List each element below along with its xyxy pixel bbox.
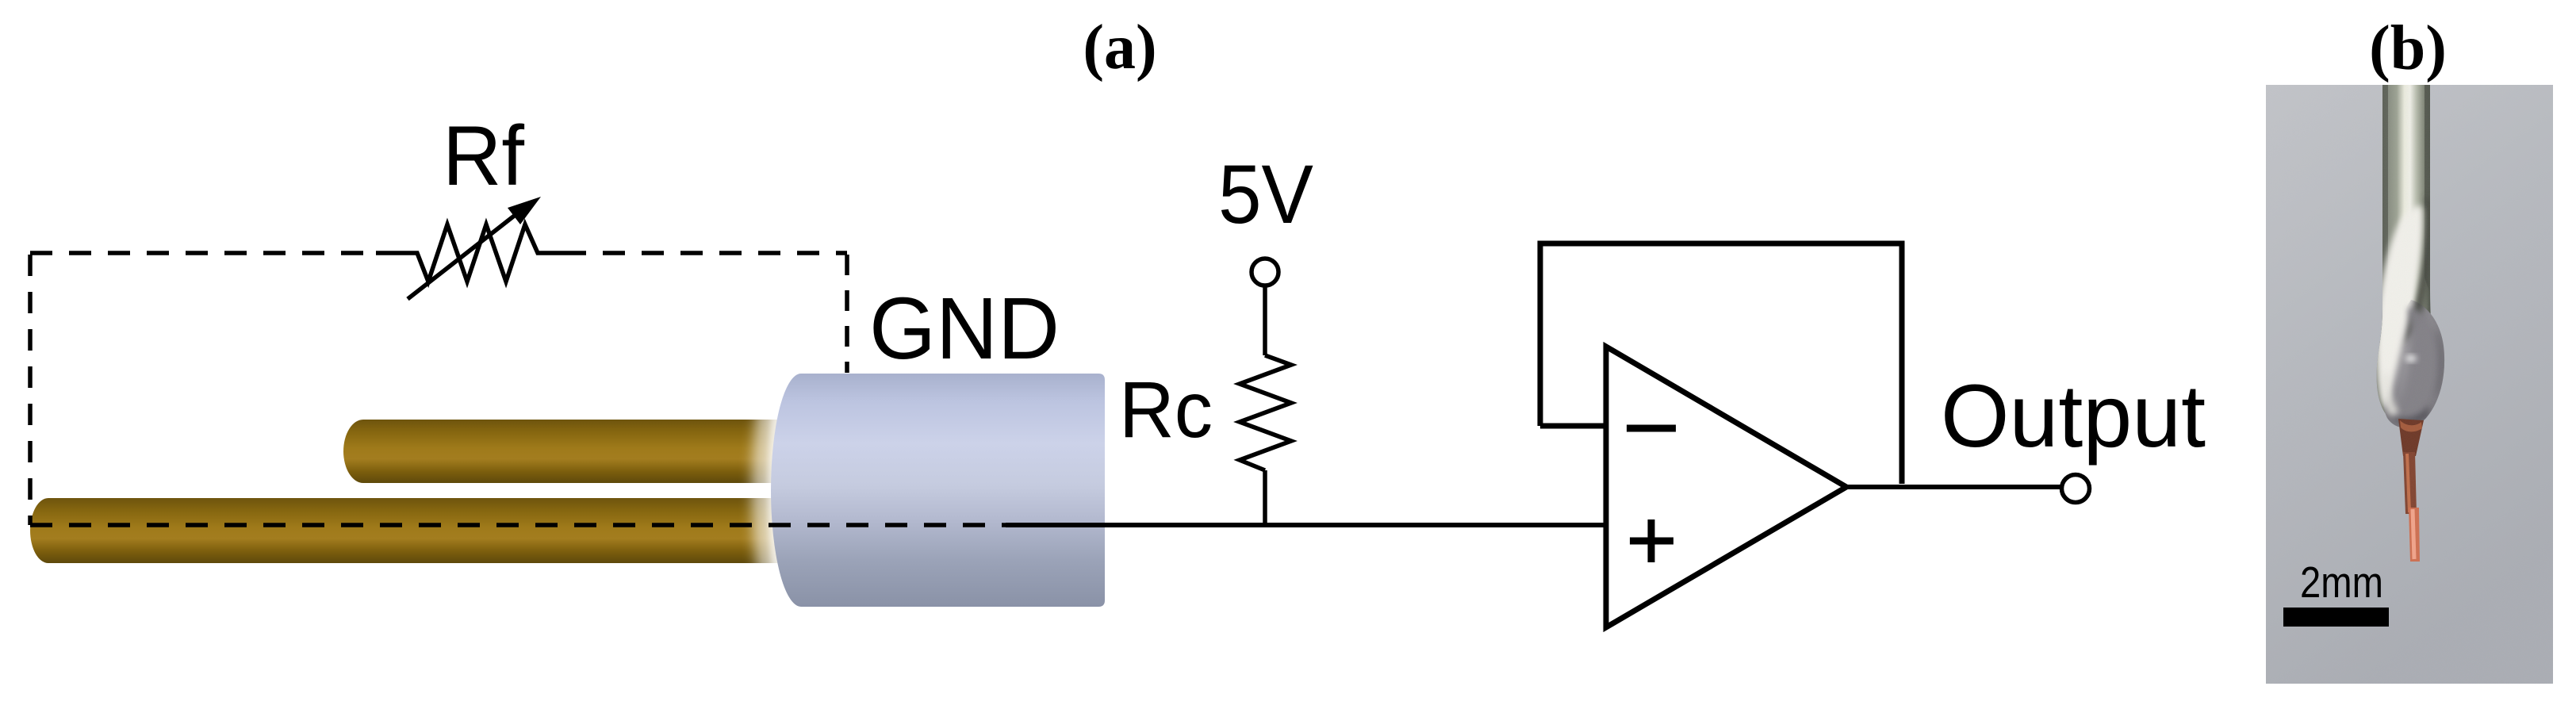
copper wire lower highlight bbox=[2413, 509, 2414, 559]
wire: main signal to op-amp + input bbox=[1006, 523, 1606, 527]
copper junction rim light bbox=[2400, 420, 2422, 431]
probe end-cap translucent highlight bbox=[752, 371, 799, 609]
op-amp U1 triangle bbox=[1606, 347, 1846, 627]
dashed wire: top rail left segment bbox=[30, 251, 376, 255]
svg-text:(b): (b) bbox=[2369, 13, 2447, 83]
svg-text:2mm: 2mm bbox=[2300, 558, 2383, 607]
shaft right-edge dark line bbox=[2425, 85, 2430, 293]
dashed wire: bottom horizontal through electrode bbox=[30, 523, 1007, 527]
svg-text:GND: GND bbox=[869, 280, 1060, 378]
svg-text:Rf: Rf bbox=[443, 108, 524, 203]
bevel bright face bbox=[2376, 206, 2422, 408]
needle shaft bbox=[2377, 85, 2438, 425]
dashed wire: top rail right segment bbox=[564, 251, 847, 255]
copper wire upper highlight bbox=[2407, 454, 2409, 512]
copper wire lower (bright) bbox=[2409, 508, 2420, 562]
copper wire upper (dark) bbox=[2403, 452, 2417, 514]
electrode rod upper (brown) bbox=[343, 420, 797, 483]
svg-text:Output: Output bbox=[1941, 366, 2206, 466]
op-amp plus pin symbol bbox=[1630, 519, 1673, 562]
5V terminal circle bbox=[1252, 259, 1278, 286]
GND sleeve cylinder bbox=[771, 374, 1105, 607]
shaft bevel dark streak bbox=[2402, 194, 2432, 345]
shaft left-edge dark line bbox=[2377, 85, 2388, 349]
dashed wire: left vertical bbox=[28, 255, 33, 525]
copper junction dark bbox=[2398, 419, 2424, 456]
photo grain bbox=[2266, 85, 2553, 684]
photo (b): thermocouple probe photograph bbox=[2266, 85, 2553, 684]
glob dark bottom rim bbox=[2387, 403, 2430, 424]
Rf wiper arrow bbox=[408, 197, 541, 299]
wire: op-amp output bbox=[1846, 485, 2061, 489]
svg-text:(a): (a) bbox=[1083, 13, 1156, 82]
dashed wire: GND vertical drop bbox=[845, 255, 849, 373]
scale bar bbox=[2283, 608, 2389, 627]
svg-text:5V: 5V bbox=[1218, 148, 1313, 241]
wire: 5V terminal to resistor bbox=[1263, 286, 1267, 355]
output terminal circle bbox=[2062, 475, 2090, 503]
op-amp feedback wire bbox=[1540, 243, 1902, 484]
resistor Rf (variable, zigzag) bbox=[376, 224, 564, 282]
op-amp minus pin symbol bbox=[1627, 425, 1676, 432]
svg-text:Rc: Rc bbox=[1119, 366, 1213, 454]
bevel lower bright tip bbox=[2383, 373, 2398, 416]
wire: resistor to main node bbox=[1263, 470, 1267, 525]
wire: feedback to inverting input bbox=[1540, 424, 1606, 429]
resistor Rc (zigzag) bbox=[1240, 355, 1291, 470]
glob specular highlight bbox=[2405, 355, 2417, 362]
glob dark right rim bbox=[2432, 329, 2443, 404]
glob core shade bbox=[2389, 308, 2443, 423]
electrode rod lower (brown) bbox=[30, 498, 797, 563]
solder glob bbox=[2384, 300, 2444, 427]
probe end-cap inner ring bbox=[768, 373, 803, 608]
